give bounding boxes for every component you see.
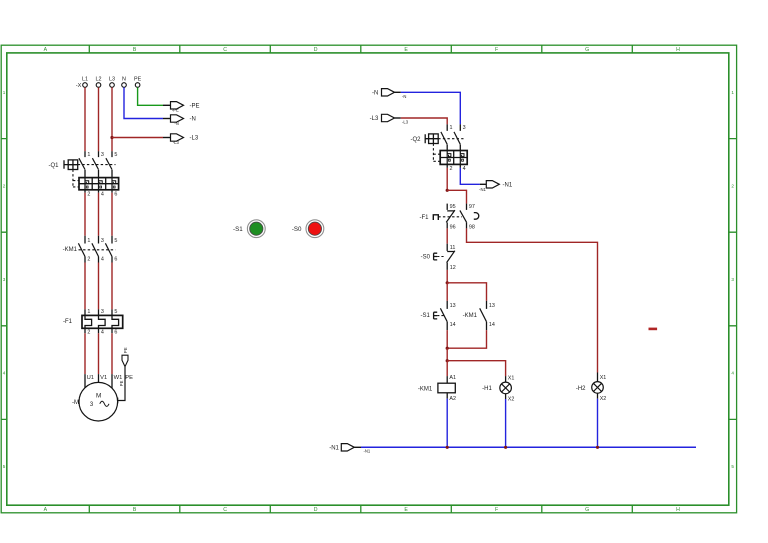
svg-text:5: 5 <box>114 238 117 244</box>
svg-text:L3: L3 <box>109 76 115 82</box>
svg-text:-L3: -L3 <box>370 116 379 122</box>
svg-text:A: A <box>44 507 48 513</box>
svg-text:PE: PE <box>134 76 142 82</box>
svg-text:2: 2 <box>450 166 453 172</box>
svg-text:1: 1 <box>3 90 6 95</box>
stray red mark <box>649 328 658 331</box>
wire N <box>124 87 171 118</box>
svg-text:4: 4 <box>463 166 466 172</box>
coil KM1 <box>418 375 456 402</box>
svg-text:3: 3 <box>463 125 466 131</box>
junction C <box>446 347 449 350</box>
svg-text:-N: -N <box>174 121 178 126</box>
svg-text:13: 13 <box>450 303 456 309</box>
svg-text:H: H <box>676 507 680 513</box>
svg-text:-KM1: -KM1 <box>463 313 478 319</box>
wire coil A2 to N1 bus <box>446 399 448 448</box>
svg-text:-S0: -S0 <box>421 254 431 260</box>
wire junction B to KM1 aux <box>447 283 486 301</box>
svg-text:5: 5 <box>114 152 117 158</box>
thermal overload F1 (power) <box>63 309 123 335</box>
svg-text:-PE: -PE <box>172 108 179 113</box>
pushbutton indicator S0 (red) <box>292 220 324 238</box>
lamp H1 <box>482 376 514 403</box>
connector -L3 <box>171 134 199 145</box>
wire L3 branch to connector <box>112 137 171 139</box>
pushbutton indicator S1 (green) <box>233 220 265 238</box>
svg-text:-N1: -N1 <box>329 446 339 452</box>
svg-text:5: 5 <box>114 309 117 315</box>
svg-text:-N: -N <box>402 94 406 99</box>
svg-text:3: 3 <box>3 277 6 282</box>
wire L3 <box>111 87 113 151</box>
svg-text:F: F <box>495 507 498 513</box>
svg-text:2: 2 <box>731 183 734 188</box>
svg-text:2: 2 <box>87 257 90 263</box>
aux contacts F1 (95-96 NC, 97-98 NO) <box>420 204 479 231</box>
svg-text:B: B <box>133 47 137 53</box>
connector -L3 (control feed) <box>370 114 409 124</box>
wires F1 to motor <box>85 333 112 374</box>
wire H1-X2 to N1 bus <box>505 399 507 447</box>
svg-text:D: D <box>314 507 318 513</box>
wire KM1aux-14 to junction C <box>447 330 486 348</box>
wire F1-96 to S0 <box>446 228 448 243</box>
svg-text:4: 4 <box>3 371 6 376</box>
svg-text:3: 3 <box>731 277 734 282</box>
connector -N1 (right) <box>479 181 513 192</box>
svg-text:C: C <box>223 47 227 53</box>
contactor KM1 main contacts <box>63 236 118 263</box>
svg-text:H: H <box>676 47 680 53</box>
junction bus at H2 <box>596 446 599 449</box>
junction bus at KM1 coil <box>446 446 449 449</box>
pushbutton S1 (NO) <box>420 301 455 330</box>
svg-text:-Q1: -Q1 <box>48 163 59 169</box>
svg-text:L2: L2 <box>96 76 102 82</box>
wire junction B to S1 <box>446 283 448 301</box>
wires KM1 to F1 <box>85 263 112 310</box>
svg-text:1: 1 <box>87 152 90 158</box>
junction D <box>446 359 449 362</box>
svg-text:-KM1: -KM1 <box>63 247 78 253</box>
svg-text:-S0: -S0 <box>292 226 302 233</box>
svg-text:98: 98 <box>469 224 475 230</box>
svg-text:95: 95 <box>450 204 456 210</box>
svg-text:U1: U1 <box>87 375 94 381</box>
junction on L3 <box>110 136 113 139</box>
svg-text:-Q2: -Q2 <box>410 137 421 143</box>
svg-text:2: 2 <box>87 329 90 335</box>
svg-text:3: 3 <box>101 152 104 158</box>
junction A <box>446 189 449 192</box>
wire Q2 pin2 down <box>446 168 448 190</box>
svg-text:A1: A1 <box>449 375 456 381</box>
svg-text:5: 5 <box>731 464 734 469</box>
lamp H2 <box>576 373 606 403</box>
svg-text:-L3: -L3 <box>173 140 180 145</box>
svg-text:-F1: -F1 <box>63 319 73 325</box>
junction B <box>446 281 449 284</box>
pushbutton S0 (NC) <box>421 244 456 271</box>
svg-text:5: 5 <box>3 464 6 469</box>
circuit breaker Q2 <box>410 124 467 171</box>
svg-text:A: A <box>44 47 48 53</box>
svg-text:14: 14 <box>450 322 456 328</box>
svg-text:D: D <box>314 47 318 53</box>
svg-text:PE: PE <box>123 347 128 353</box>
svg-text:C: C <box>223 507 227 513</box>
svg-text:-M: -M <box>72 400 79 406</box>
wire S1-14 to junction C <box>446 330 448 348</box>
svg-text:B: B <box>133 507 137 513</box>
wire L2 <box>98 87 100 151</box>
svg-text:-N1: -N1 <box>364 449 371 454</box>
wire N to Q2 pin3 <box>401 92 461 124</box>
svg-text:-H2: -H2 <box>576 386 586 392</box>
svg-text:W1: W1 <box>114 375 123 381</box>
svg-text:-H1: -H1 <box>482 386 492 392</box>
svg-text:N: N <box>122 76 126 82</box>
svg-text:X2: X2 <box>508 397 515 403</box>
svg-text:4: 4 <box>101 191 104 197</box>
connector -PE <box>171 102 200 113</box>
svg-text:F: F <box>495 47 498 53</box>
svg-text:G: G <box>585 507 589 513</box>
svg-text:4: 4 <box>101 329 104 335</box>
svg-text:1: 1 <box>731 90 734 95</box>
svg-text:-L3: -L3 <box>190 136 199 142</box>
wire N1 bus <box>361 446 696 448</box>
junction bus at H1 <box>504 446 507 449</box>
svg-text:4: 4 <box>731 371 734 376</box>
svg-text:1: 1 <box>450 125 453 131</box>
svg-text:97: 97 <box>469 204 475 210</box>
svg-text:6: 6 <box>114 329 117 335</box>
svg-text:6: 6 <box>114 191 117 197</box>
svg-text:14: 14 <box>489 322 495 328</box>
svg-text:V1: V1 <box>100 375 107 381</box>
wire Q2 pin4 to connector N1 <box>460 168 480 184</box>
wire junction D to lamp H1 <box>447 361 505 376</box>
svg-text:M: M <box>96 393 101 400</box>
wire PE <box>138 87 171 105</box>
svg-text:X1: X1 <box>600 375 607 381</box>
aux contact KM1 (13-14) <box>463 301 495 330</box>
svg-text:-X: -X <box>76 83 82 89</box>
svg-text:PE: PE <box>119 380 124 386</box>
wire L1 <box>84 87 86 151</box>
svg-text:6: 6 <box>114 257 117 263</box>
svg-text:4: 4 <box>101 257 104 263</box>
connector -N <box>171 115 196 126</box>
svg-text:-S1: -S1 <box>233 226 243 233</box>
svg-text:E: E <box>404 47 408 53</box>
svg-text:A2: A2 <box>449 396 456 402</box>
svg-text:-S1: -S1 <box>420 313 430 319</box>
wire junction A to F1 pin97 <box>447 190 466 203</box>
svg-text:11: 11 <box>450 245 456 251</box>
svg-text:X1: X1 <box>508 376 515 382</box>
svg-text:-N1: -N1 <box>503 183 513 189</box>
svg-text:-F1: -F1 <box>420 215 430 221</box>
svg-text:L1: L1 <box>82 76 88 82</box>
svg-text:E: E <box>404 507 408 513</box>
svg-text:12: 12 <box>450 265 456 271</box>
svg-text:3: 3 <box>101 309 104 315</box>
svg-text:1: 1 <box>87 238 90 244</box>
PE conductor to motor <box>118 347 129 403</box>
wire L3 to Q2 pin1 <box>401 118 447 124</box>
svg-text:-N: -N <box>372 91 378 97</box>
motor M <box>72 374 133 421</box>
svg-text:13: 13 <box>489 303 495 309</box>
svg-text:-N: -N <box>190 117 196 123</box>
wires Q1 to KM1 <box>85 193 112 236</box>
svg-text:-N1: -N1 <box>479 187 486 192</box>
wire junction D to coil KM1 <box>446 361 448 376</box>
wire S0 to junction B <box>446 270 448 283</box>
wire F1-98 to lamp H2 <box>467 228 598 372</box>
connector -N1 (bus) <box>329 444 371 454</box>
terminal strip -X (L1 L2 L3 N PE) <box>76 76 142 89</box>
svg-text:G: G <box>585 47 589 53</box>
svg-text:-KM1: -KM1 <box>418 387 433 393</box>
svg-text:X2: X2 <box>600 396 607 402</box>
svg-text:2: 2 <box>87 191 90 197</box>
svg-text:-PE: -PE <box>190 103 200 109</box>
svg-text:96: 96 <box>450 224 456 230</box>
circuit breaker Q1 <box>48 151 118 197</box>
svg-text:-L3: -L3 <box>402 120 409 125</box>
connector -N (control feed) <box>372 89 406 99</box>
svg-text:3: 3 <box>101 238 104 244</box>
wire H2-X2 to N1 bus <box>597 399 599 448</box>
svg-text:PE: PE <box>125 375 133 381</box>
svg-text:1: 1 <box>87 309 90 315</box>
svg-text:2: 2 <box>3 183 6 188</box>
wire junction C to junction D <box>446 348 448 361</box>
